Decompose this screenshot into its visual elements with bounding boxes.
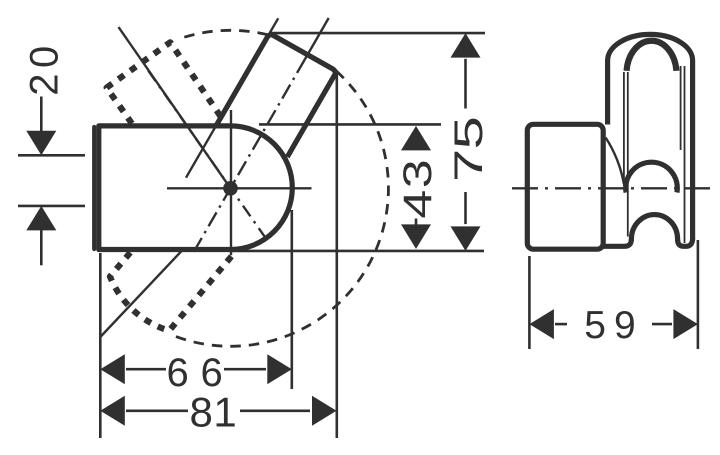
svg-text:43: 43	[395, 158, 440, 219]
upper saddle arch	[626, 162, 678, 192]
crosshair horizontal	[167, 187, 312, 189]
diagonal construction line lower-left	[100, 251, 182, 338]
arrow 75 up	[451, 33, 481, 58]
svg-text:75: 75	[446, 117, 491, 182]
alternate axis centerline	[148, 71, 266, 239]
dim 66 line	[126, 368, 166, 371]
dim 43 leader	[415, 219, 418, 225]
ext line 20 top	[18, 154, 85, 157]
tube edge extension line	[186, 18, 278, 177]
pivot center dot	[223, 181, 238, 196]
ext line 66/81 left	[99, 253, 102, 438]
rim inner arc	[627, 41, 677, 71]
dim 59 ext left	[528, 256, 531, 349]
swivel range dashed circle	[184, 30, 268, 37]
dim 81 line	[126, 409, 188, 412]
arrow 66 right	[267, 354, 292, 384]
arrow 81 right	[312, 396, 337, 426]
dashed alternate-position outline (top)	[107, 42, 226, 123]
arrow 43 down	[401, 224, 431, 249]
dim 75 leader	[464, 59, 467, 109]
centerline right view	[512, 187, 712, 189]
wall plate side	[527, 124, 603, 249]
svg-text:20: 20	[22, 40, 66, 96]
crosshair vertical	[230, 110, 232, 255]
svg-text:59: 59	[584, 304, 643, 347]
arrow 59 right	[673, 309, 698, 339]
fillet curve	[606, 138, 624, 185]
arrow 43 up	[401, 126, 431, 150]
arrow 59 left	[529, 309, 554, 339]
lower saddle arch	[631, 215, 677, 241]
holder tube (solid position)	[217, 35, 336, 157]
svg-text:81: 81	[190, 388, 238, 435]
tube outer profile	[608, 34, 693, 239]
arrow 81 left	[100, 396, 125, 426]
ext line bottom shared	[230, 250, 484, 253]
arrow 66 left	[100, 354, 125, 384]
tube bottom left	[604, 239, 632, 246]
tube axis centerline	[305, 18, 329, 59]
dim 59 line	[555, 323, 567, 326]
construction line to center	[119, 27, 231, 188]
arrow 20 down	[26, 131, 56, 156]
ext line 75 top	[270, 32, 485, 35]
dim 20 leader	[40, 97, 43, 132]
arrow 75 down	[451, 226, 481, 251]
ext line 43 top	[259, 123, 441, 126]
arrow 20 up	[26, 206, 56, 231]
dashed alternate-position outline (bottom)	[110, 253, 234, 331]
wall plate edge	[92, 127, 96, 249]
ext line 20 bottom	[18, 205, 85, 208]
inner wall lines	[623, 72, 625, 186]
tube bottom right	[678, 238, 693, 246]
dim 59 ext right	[697, 240, 700, 349]
holder body	[99, 126, 292, 250]
ext line 66 right	[290, 210, 293, 389]
ext line 81 right	[335, 73, 338, 438]
